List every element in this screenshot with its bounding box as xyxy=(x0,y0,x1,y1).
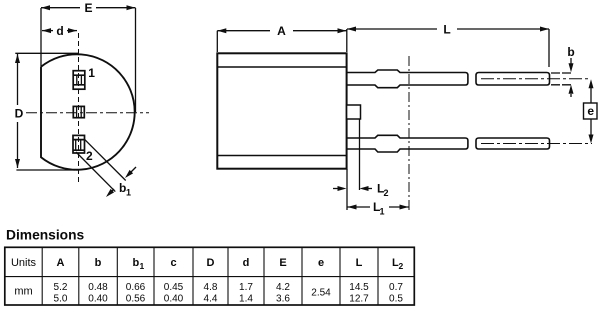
svg-text:L: L xyxy=(443,23,450,37)
svg-text:1: 1 xyxy=(88,66,95,80)
svg-text:1.4: 1.4 xyxy=(239,294,253,305)
svg-text:5.0: 5.0 xyxy=(54,294,68,305)
label L1 xyxy=(373,200,385,217)
body edge extension below xyxy=(346,169,348,210)
dimension L xyxy=(347,27,549,68)
svg-text:0.66: 0.66 xyxy=(126,282,146,293)
b upper arrow xyxy=(569,58,574,72)
svg-text:0.40: 0.40 xyxy=(88,294,108,305)
svg-text:1: 1 xyxy=(140,261,145,271)
body bottom parting line xyxy=(217,155,346,157)
svg-text:0.40: 0.40 xyxy=(164,294,184,305)
svg-text:0.45: 0.45 xyxy=(164,282,184,293)
svg-text:E: E xyxy=(279,257,286,269)
b1 arrow lower xyxy=(106,189,114,197)
dimension d xyxy=(42,28,77,33)
svg-text:b: b xyxy=(133,257,140,269)
horizontal centerline (dash-dot) xyxy=(26,112,149,114)
middle pin xyxy=(73,106,84,117)
svg-text:b: b xyxy=(567,45,574,59)
b1 arrow upper xyxy=(125,167,136,178)
svg-text:2: 2 xyxy=(86,149,93,163)
shared extension line body edge xyxy=(346,29,348,52)
svg-text:d: d xyxy=(243,257,250,269)
svg-text:1: 1 xyxy=(380,207,385,217)
svg-text:2: 2 xyxy=(384,188,389,198)
vertical centerline through pins xyxy=(78,33,80,182)
body top parting line xyxy=(217,66,346,68)
svg-text:Dimensions: Dimensions xyxy=(6,228,85,243)
svg-text:2: 2 xyxy=(399,261,404,271)
svg-text:Units: Units xyxy=(11,257,37,269)
svg-text:0.5: 0.5 xyxy=(389,294,403,305)
svg-text:mm: mm xyxy=(14,286,32,298)
svg-text:d: d xyxy=(56,24,63,38)
bottom lead segment 2 xyxy=(476,138,550,149)
mounting tab xyxy=(347,105,361,119)
svg-text:4.8: 4.8 xyxy=(204,282,218,293)
svg-text:0.48: 0.48 xyxy=(88,282,108,293)
label L2 xyxy=(377,182,389,199)
dimension A xyxy=(217,28,346,52)
svg-text:e: e xyxy=(318,257,324,269)
table data row xyxy=(14,282,403,305)
table grid xyxy=(5,247,415,305)
dimension E xyxy=(41,5,136,112)
svg-text:c: c xyxy=(170,257,176,269)
svg-text:D: D xyxy=(15,107,24,121)
dimension b extension lines xyxy=(551,73,573,85)
bottom lead segment 1 with bulge xyxy=(347,135,468,152)
top lead centerline xyxy=(481,78,591,80)
svg-text:b: b xyxy=(95,257,102,269)
top lead segment 1 with bulge xyxy=(347,70,468,88)
b lower arrow xyxy=(569,85,574,97)
dimension e xyxy=(584,79,598,143)
svg-text:4.2: 4.2 xyxy=(276,282,290,293)
top lead segment 2 xyxy=(476,73,550,86)
svg-text:14.5: 14.5 xyxy=(349,282,369,293)
dimension L1 xyxy=(348,205,409,210)
dimension b1 extension lines xyxy=(76,139,126,191)
svg-text:e: e xyxy=(587,104,594,118)
svg-text:A: A xyxy=(57,257,65,269)
bottom lead centerline xyxy=(481,143,592,145)
svg-text:D: D xyxy=(207,257,215,269)
svg-text:2.54: 2.54 xyxy=(311,288,331,299)
svg-text:1: 1 xyxy=(126,188,131,198)
svg-text:1.7: 1.7 xyxy=(239,282,253,293)
label b1 xyxy=(119,181,131,198)
table header row xyxy=(11,257,404,271)
dimension D xyxy=(15,53,79,170)
svg-text:0.56: 0.56 xyxy=(126,294,146,305)
svg-text:4.4: 4.4 xyxy=(204,294,218,305)
svg-text:3.6: 3.6 xyxy=(276,294,290,305)
dimension L2 xyxy=(333,186,372,191)
pin 2 xyxy=(73,135,85,153)
svg-text:5.2: 5.2 xyxy=(54,282,68,293)
pin 1 xyxy=(73,71,85,90)
svg-text:12.7: 12.7 xyxy=(349,294,369,305)
body rectangle (side view) xyxy=(217,53,346,168)
bend reference line (dash-dot) xyxy=(408,56,410,210)
package body (top view, D-shape) xyxy=(41,54,135,169)
svg-text:0.7: 0.7 xyxy=(389,282,403,293)
svg-text:L: L xyxy=(356,257,363,269)
svg-text:E: E xyxy=(84,1,92,15)
L2 reference line xyxy=(359,119,361,190)
svg-text:A: A xyxy=(277,24,286,38)
